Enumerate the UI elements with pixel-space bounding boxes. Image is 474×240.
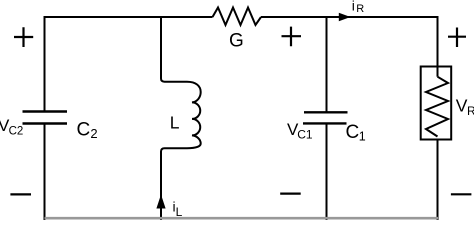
svg-text:V: V xyxy=(456,96,468,116)
svg-text:C1: C1 xyxy=(297,128,313,142)
svg-text:i: i xyxy=(352,0,355,14)
svg-text:R: R xyxy=(467,104,474,118)
svg-text:C2: C2 xyxy=(9,125,24,137)
svg-text:L: L xyxy=(176,205,183,219)
svg-text:L: L xyxy=(170,113,180,133)
svg-text:C: C xyxy=(77,119,91,140)
svg-text:C: C xyxy=(346,122,360,143)
svg-text:1: 1 xyxy=(359,129,366,143)
svg-text:R: R xyxy=(356,3,364,15)
svg-text:G: G xyxy=(229,31,244,52)
svg-text:2: 2 xyxy=(90,126,97,141)
